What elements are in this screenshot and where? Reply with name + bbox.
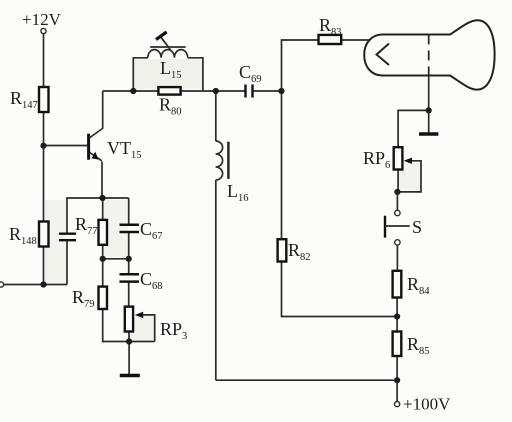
- wire R84 bottom to node: [396, 298, 398, 332]
- wire switch to R84: [396, 245, 398, 271]
- transistor VT15: [89, 128, 103, 160]
- wire RP6 node to switch: [396, 192, 398, 210]
- wire R79 top lead: [102, 259, 104, 287]
- wire C67 top lead: [128, 198, 130, 225]
- resistor R148: [39, 222, 49, 247]
- L15 adjustable core bar: [150, 46, 186, 48]
- L15 adjust arrow: [156, 32, 170, 50]
- wire joining R77/C67 bottoms: [103, 258, 129, 260]
- wire C67 bottom lead: [128, 232, 130, 259]
- wire R148 bottom to bottom-left rail: [43, 247, 45, 285]
- capacitor C68: [120, 274, 140, 281]
- wire tube base down: [428, 76, 430, 111]
- wire L15 left vertical: [133, 58, 148, 91]
- inductor L15: [148, 50, 188, 58]
- node RP3 bottom junction: [126, 338, 132, 344]
- terminal bottom-left: [0, 282, 4, 287]
- resistor R83: [319, 35, 342, 44]
- wire RP3 node to ground: [128, 342, 130, 375]
- wire emitter vertical: [101, 162, 103, 199]
- wire R79 bottom to RP3 node: [103, 309, 155, 342]
- switch S: [385, 210, 410, 245]
- wire C68 bottom to RP3: [128, 282, 130, 307]
- L16 core bar: [227, 142, 229, 179]
- wire R77 bottom lead: [102, 245, 104, 259]
- tube cathode chevron: [377, 44, 390, 66]
- wire node to L16: [215, 91, 217, 141]
- node C69 right: [278, 88, 284, 94]
- node emitter junction: [99, 195, 105, 201]
- RP6 wiper arrow: [404, 158, 412, 164]
- wire base: node to VT15 base: [44, 145, 89, 147]
- shading inside L15/R80 loop: [135, 59, 202, 89]
- capacitor C67: [120, 225, 140, 232]
- wire tube node to ground: [428, 110, 430, 132]
- ground (right): [419, 132, 438, 136]
- wire top of R77/C67 group: [67, 198, 129, 234]
- node R84/R85 junction: [394, 313, 400, 319]
- wire C68 top lead: [128, 259, 130, 274]
- wire bottom-left rail: [4, 284, 67, 286]
- wire bottom rail to R85 node: [216, 379, 397, 381]
- wire C69 right to node: [253, 90, 282, 92]
- wire RP6 wiper loop: [397, 161, 421, 192]
- node RP6 bottom junction: [394, 189, 400, 195]
- wire C66 bottom lead: [66, 240, 68, 284]
- CRT tube: [364, 20, 494, 89]
- wire L16 bottom long vertical: [215, 180, 217, 380]
- shading RP6 loop: [399, 162, 420, 190]
- wire RP3 bottom lead: [128, 332, 130, 342]
- resistor R85: [393, 332, 402, 357]
- wire +12V terminal to R147: [43, 34, 45, 87]
- svg-text:S: S: [412, 217, 422, 237]
- terminal +12V: [41, 28, 46, 33]
- shading RP3 loop: [130, 316, 154, 340]
- inductor L16: [216, 141, 223, 180]
- wire main line R80 to C69: [181, 90, 246, 92]
- wire RP3 wiper loop: [141, 315, 155, 342]
- shading left of C66: [45, 200, 66, 283]
- wire node C69 up to R83 rail: [282, 40, 319, 239]
- svg-text:+12V: +12V: [22, 10, 62, 29]
- svg-text:+100V: +100V: [403, 395, 451, 414]
- wire R83 to tube: [341, 39, 369, 41]
- wire R85 bottom to +100V: [396, 356, 398, 401]
- node main line left: [130, 88, 136, 94]
- node C67 bottom: [126, 256, 132, 262]
- RP3 wiper arrow: [135, 312, 143, 318]
- terminal +100V: [395, 402, 400, 407]
- node tube bottom junction: [426, 107, 432, 113]
- resistor R80: [158, 87, 180, 95]
- shading between R77 and C67: [104, 200, 128, 257]
- node R148 bottom junction: [40, 281, 46, 287]
- resistor R82: [278, 239, 287, 261]
- resistor R84: [393, 271, 402, 298]
- wire R77 top lead: [102, 198, 104, 220]
- node main line right: [213, 88, 219, 94]
- resistor R147: [39, 87, 49, 112]
- wire R82 down to R84/R85 node: [282, 262, 398, 317]
- node bottom rail junction: [394, 377, 400, 383]
- capacitor C69: [246, 85, 253, 98]
- wire L15 right vertical: [188, 58, 203, 91]
- capacitor (unlabeled) left: [59, 234, 76, 241]
- node base junction: [40, 143, 46, 149]
- wire main line y=91: [103, 90, 159, 92]
- wire RP6 bottom lead: [397, 170, 399, 192]
- resistor R79: [99, 287, 108, 309]
- wire collector vertical: [102, 91, 104, 129]
- node R77 bottom: [100, 256, 106, 262]
- potentiometer RP6: [394, 147, 403, 169]
- tube dashed grid line: [428, 35, 430, 76]
- ground (left): [120, 374, 140, 378]
- wire R147 to R148: [43, 112, 45, 222]
- resistor R77: [99, 220, 108, 245]
- wire tube node to RP6: [398, 110, 429, 147]
- potentiometer RP3: [125, 307, 133, 332]
